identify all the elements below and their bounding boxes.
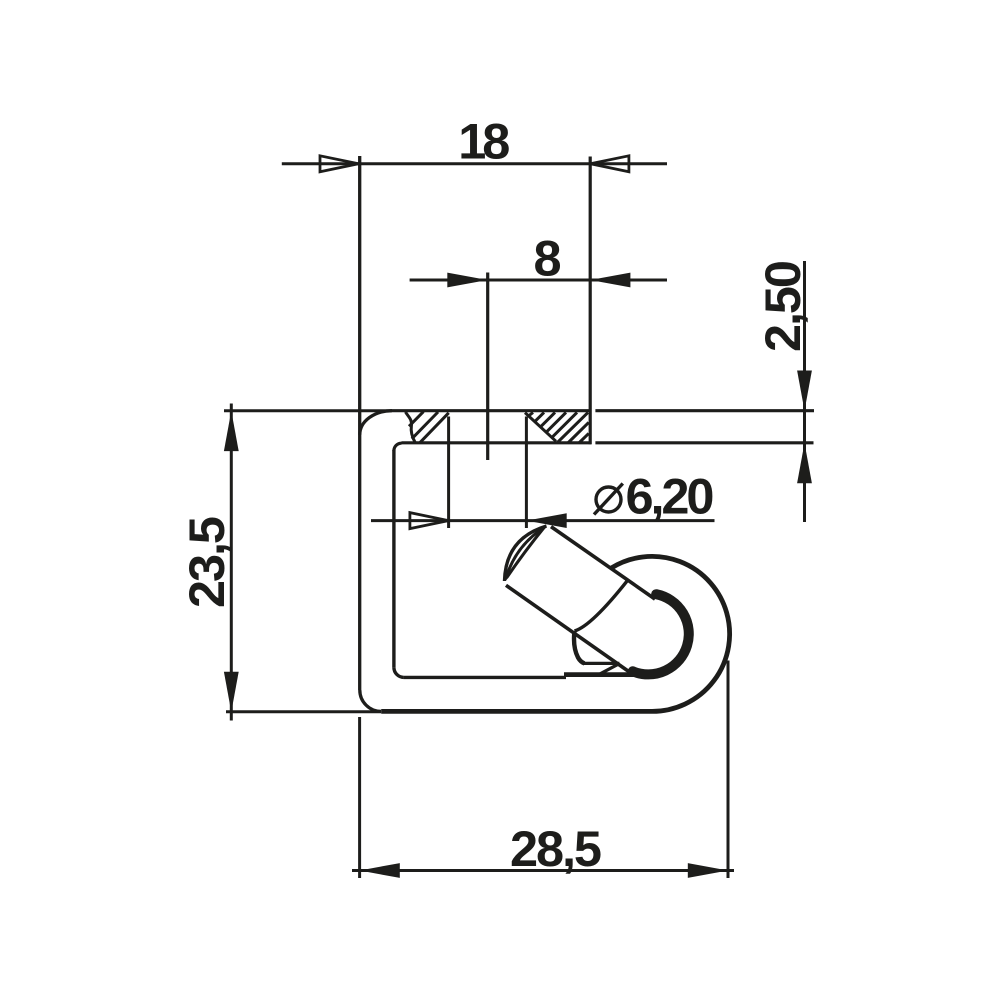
profile top-left outer corner	[360, 411, 392, 435]
arrow 8 right filled	[590, 273, 630, 288]
svg-text:6,20: 6,20	[626, 468, 715, 525]
profile inner top-left corner	[394, 443, 402, 451]
cord upper edge	[551, 527, 655, 600]
profile top edge (left section part)	[391, 409, 591, 412]
diameter symbol circle	[596, 487, 621, 512]
arrow 2,50 bottom filled	[797, 443, 812, 483]
left extension for 28,5	[358, 717, 361, 878]
foot bottom line	[584, 662, 619, 665]
profile inner bottom edge	[404, 676, 566, 679]
cord face chamfer ring 2	[507, 527, 545, 578]
profile inner left edge	[392, 450, 395, 667]
hatch line 9 (right patch)	[579, 433, 589, 443]
dim 28,5 line	[352, 869, 734, 872]
hook inner seat thick arc	[633, 594, 689, 674]
arrow 23,5 top filled	[224, 411, 239, 451]
svg-text:28,5: 28,5	[510, 820, 602, 877]
cord face chamfer ring 1	[506, 527, 546, 580]
profile top edge (right flange part)	[595, 409, 814, 412]
arrow 18 left open	[320, 156, 359, 172]
hatch line 8 (right patch)	[568, 422, 589, 443]
cord lower edge	[506, 585, 633, 674]
svg-text:23,5: 23,5	[178, 516, 235, 608]
arrow 23,5 bottom filled	[224, 672, 239, 712]
arrow 28,5 right filled	[688, 863, 728, 878]
profile flange bottom edge (right)	[595, 441, 813, 444]
profile bottom-left outer corner	[360, 690, 381, 711]
dim 8 line	[410, 279, 667, 282]
profile inner bottom-left corner	[394, 667, 404, 677]
bottom extension line for 23,5	[226, 710, 381, 713]
svg-text:8: 8	[534, 230, 562, 287]
profile outer bottom edge	[381, 709, 652, 714]
hole right edge extension line	[525, 417, 528, 529]
foot diagonal	[600, 664, 619, 674]
hatch line 5 (right patch)	[547, 412, 567, 432]
dim 23,5 line	[230, 404, 233, 721]
right extension for 28,5	[727, 661, 730, 879]
bead collar curve across cord	[575, 580, 629, 631]
cord body white fill	[505, 526, 656, 675]
hatch line 3 (right patch)	[535, 412, 544, 421]
countersink edge right	[525, 413, 556, 442]
hatch sliver (right patch)	[529, 412, 534, 416]
top extension line for 23,5	[224, 409, 392, 412]
profile inner top edge (left)	[402, 441, 592, 444]
support lip left edge	[574, 631, 584, 663]
freehand break line in top wall	[406, 412, 416, 442]
hatch line 4 (right patch)	[541, 412, 555, 426]
dim 2,50 line	[803, 261, 806, 522]
hatch line 1 (left patch)	[409, 412, 424, 427]
seat ledge line	[564, 672, 656, 677]
hatch line 2 (left patch)	[412, 412, 438, 439]
countersink edge left	[420, 413, 449, 443]
profile outer left edge plus 18-dim extension	[358, 156, 361, 690]
arrow 28,5 left filled	[360, 863, 400, 878]
dim dia 6,20 line	[371, 519, 715, 522]
dim 18 line	[282, 162, 667, 165]
arrow dia right filled	[527, 513, 567, 528]
hatch line 7 (right patch)	[557, 412, 588, 443]
hole left edge extension line	[447, 417, 450, 529]
cord end face outer rim	[505, 526, 547, 581]
section right edge at x=590 plus dim extension	[589, 157, 592, 445]
arrow 2,50 top filled	[797, 371, 812, 411]
svg-text:2,50: 2,50	[754, 260, 811, 352]
arrow dia left open	[410, 513, 449, 529]
hatch line 6 (right patch)	[552, 412, 577, 437]
diameter symbol slash	[594, 484, 623, 515]
svg-text:18: 18	[458, 112, 510, 169]
hole centerline	[486, 273, 489, 461]
arrow 18 right open	[590, 156, 629, 172]
hook outer arc	[611, 556, 730, 711]
arrow 8 left filled	[447, 273, 487, 288]
